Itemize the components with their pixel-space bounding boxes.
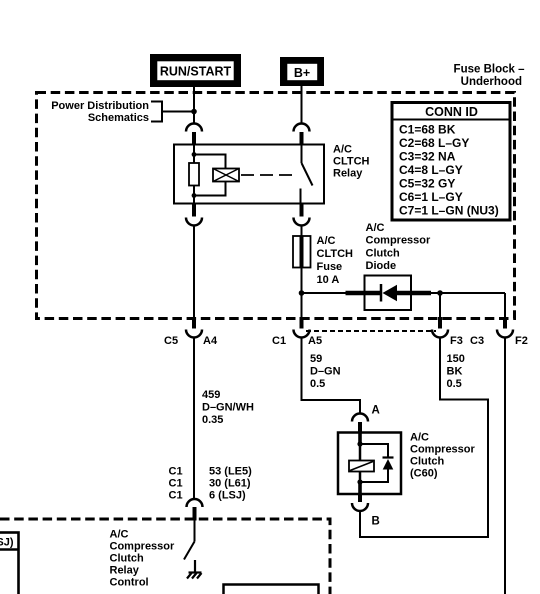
svg-text:C1: C1 (169, 490, 183, 502)
svg-text:Relay: Relay (333, 168, 363, 180)
svg-text:C3: C3 (470, 335, 484, 347)
svg-text:Control: Control (110, 577, 149, 589)
pin labels C5 A4 C1 A5 F3 C3 F2 (164, 335, 528, 347)
clutch diode D2 (383, 458, 394, 470)
svg-text:0.5: 0.5 (447, 378, 462, 390)
wire A5 to clutch (302, 338, 361, 414)
connector C1 into relay control (187, 499, 203, 521)
CONN ID table box (392, 103, 510, 221)
fuse block underhood boundary (dashed box) (37, 93, 515, 319)
svg-text:A/C: A/C (317, 235, 336, 247)
bottom right box partial (224, 585, 319, 594)
connector F3/C3 at fuse block edge (432, 317, 448, 338)
label A/C Compressor Clutch Relay Control (110, 529, 176, 589)
label 150 BK 0.5 (447, 353, 465, 390)
wire diode out (thick) (397, 291, 431, 296)
diode assembly box (365, 276, 412, 311)
svg-text:C1: C1 (169, 466, 183, 478)
wire diode out to F2 drop (431, 292, 505, 294)
svg-text:D–GN/WH: D–GN/WH (202, 402, 254, 414)
connector C1/A5 at fuse block edge (294, 317, 310, 338)
svg-text:Clutch: Clutch (410, 456, 445, 468)
svg-text:A4: A4 (203, 335, 218, 347)
svg-text:A/C: A/C (110, 529, 129, 541)
svg-text:0.5: 0.5 (310, 378, 325, 390)
label A/C CLTCH Fuse 10 A (317, 235, 354, 286)
svg-text:Fuse Block –: Fuse Block – (454, 64, 526, 76)
wire B+ down (301, 86, 303, 124)
svg-text:C1: C1 (272, 335, 286, 347)
wire coil top rail (194, 155, 226, 169)
svg-text:Clutch: Clutch (110, 553, 145, 565)
svg-text:Fuse: Fuse (317, 261, 343, 273)
connector F2 at fuse block edge (497, 317, 513, 338)
wire resistor bottom (193, 186, 195, 204)
wire B down to return (359, 512, 361, 539)
node (clutch top) (357, 441, 362, 446)
svg-text:CLTCH: CLTCH (333, 156, 370, 168)
svg-text:RUN/START: RUN/START (160, 65, 232, 79)
relay control dashed boundary (0, 519, 330, 594)
svg-text:6 (LSJ): 6 (LSJ) (209, 490, 246, 502)
svg-text:A5: A5 (308, 335, 322, 347)
svg-text:A: A (372, 405, 380, 417)
node (coil top) (192, 152, 197, 157)
svg-text:Power Distribution: Power Distribution (51, 100, 149, 112)
fuse A/C CLTCH 10 A (293, 236, 311, 268)
svg-text:C1=68 BK: C1=68 BK (399, 123, 456, 137)
svg-text:(LSJ): (LSJ) (0, 537, 14, 549)
label Power Distribution Schematics (51, 100, 149, 124)
node (clutch bottom) (357, 479, 362, 484)
svg-text:C6=1 L–GY: C6=1 L–GY (399, 190, 463, 204)
clutch diode branch (360, 444, 388, 482)
label Fuse Block - Underhood (454, 64, 526, 89)
connector below relay (left pin) (186, 204, 202, 226)
clutch box outline (338, 433, 401, 495)
svg-text:BK: BK (447, 366, 463, 378)
svg-text:A/C: A/C (366, 222, 385, 234)
relay control switch (184, 521, 195, 560)
svg-text:Clutch: Clutch (366, 248, 401, 260)
wire junction to diode (thin then thick) (302, 292, 347, 294)
svg-text:459: 459 (202, 389, 220, 401)
svg-text:C2=68 L–GY: C2=68 L–GY (399, 136, 469, 150)
svg-text:C5=32 GY: C5=32 GY (399, 177, 455, 191)
CONN ID rows (399, 123, 499, 218)
svg-text:Diode: Diode (366, 260, 397, 272)
power feed box RUN/START (150, 54, 241, 87)
connector at relay pin (RUN/START side) (186, 124, 202, 146)
svg-text:59: 59 (310, 353, 322, 365)
labels C1 53 (LE5) 30 (L61) 6 (LSJ) (169, 466, 253, 502)
wire relay to fuse (301, 226, 303, 237)
dashed actuation link (241, 174, 296, 176)
wire relay to C5 (193, 226, 195, 319)
label A/C CLTCH Relay (333, 144, 370, 180)
svg-text:Underhood: Underhood (461, 76, 522, 88)
svg-text:53 (LE5): 53 (LE5) (209, 466, 252, 478)
label 59 D-GN 0.5 (310, 353, 341, 390)
clutch coil (349, 461, 374, 472)
svg-text:C3=32 NA: C3=32 NA (399, 150, 456, 164)
wire down to F3 (439, 293, 441, 318)
connector A at clutch (352, 414, 368, 434)
diode D1 (381, 284, 397, 302)
connector B at clutch (352, 494, 368, 511)
svg-text:A/C: A/C (410, 432, 429, 444)
label A/C Compressor Clutch (C60) (410, 432, 476, 480)
connector C5/A4 at fuse block edge (186, 317, 202, 338)
resistor (relay coil suppressor) (189, 163, 199, 186)
label 459 D-GN/WH 0.35 (202, 389, 254, 426)
svg-text:B: B (372, 516, 380, 528)
svg-text:30 (L61): 30 (L61) (209, 478, 251, 490)
svg-text:Relay: Relay (110, 565, 140, 577)
svg-text:A/C: A/C (333, 144, 352, 156)
svg-text:C1: C1 (169, 478, 183, 490)
svg-text:C4=8 L–GY: C4=8 L–GY (399, 163, 463, 177)
svg-text:(C60): (C60) (410, 468, 438, 480)
svg-text:Schematics: Schematics (88, 112, 149, 124)
wire fuse to junction (301, 268, 303, 319)
relay box outline (174, 145, 324, 204)
junction node (power distribution tap) (191, 109, 197, 115)
svg-text:Compressor: Compressor (110, 541, 176, 553)
connector at relay pin (B+ side) (294, 124, 310, 146)
relay internal left wire (193, 145, 195, 164)
wire RUN/START down (193, 87, 195, 124)
ground (187, 560, 202, 579)
dotted connector tie line (306, 330, 436, 332)
clutch internal main wire (359, 433, 362, 495)
svg-text:CLTCH: CLTCH (317, 248, 354, 260)
svg-text:Compressor: Compressor (366, 235, 432, 247)
wire C5 to relay control connector (193, 338, 195, 500)
svg-text:CONN ID: CONN ID (425, 105, 478, 119)
svg-text:Compressor: Compressor (410, 444, 476, 456)
svg-text:C5: C5 (164, 335, 178, 347)
svg-text:F2: F2 (515, 335, 528, 347)
LSJ box partial (0, 533, 19, 594)
relay switch (301, 145, 313, 204)
svg-text:C7=1 L–GN (NU3): C7=1 L–GN (NU3) (399, 204, 499, 218)
connector below relay (switch pin) (294, 204, 310, 226)
svg-text:B+: B+ (294, 66, 310, 80)
wire down to F2 (504, 293, 506, 318)
node (coil bottom) (192, 193, 197, 198)
svg-text:D–GN: D–GN (310, 366, 341, 378)
power feed box B+ (280, 57, 324, 86)
svg-text:F3: F3 (450, 335, 463, 347)
relay coil (X box) (213, 169, 239, 182)
svg-text:0.35: 0.35 (202, 414, 223, 426)
wire coil bottom rail (194, 182, 226, 196)
bracket to power distribution (151, 102, 194, 122)
junction node (diode out) (437, 290, 443, 296)
wire F2 down (504, 338, 506, 594)
svg-text:10 A: 10 A (317, 274, 340, 286)
label A/C Compressor Clutch Diode (366, 222, 432, 272)
svg-text:150: 150 (447, 353, 465, 365)
wire F3 return path (360, 338, 488, 538)
junction node (fuse output) (299, 290, 305, 296)
